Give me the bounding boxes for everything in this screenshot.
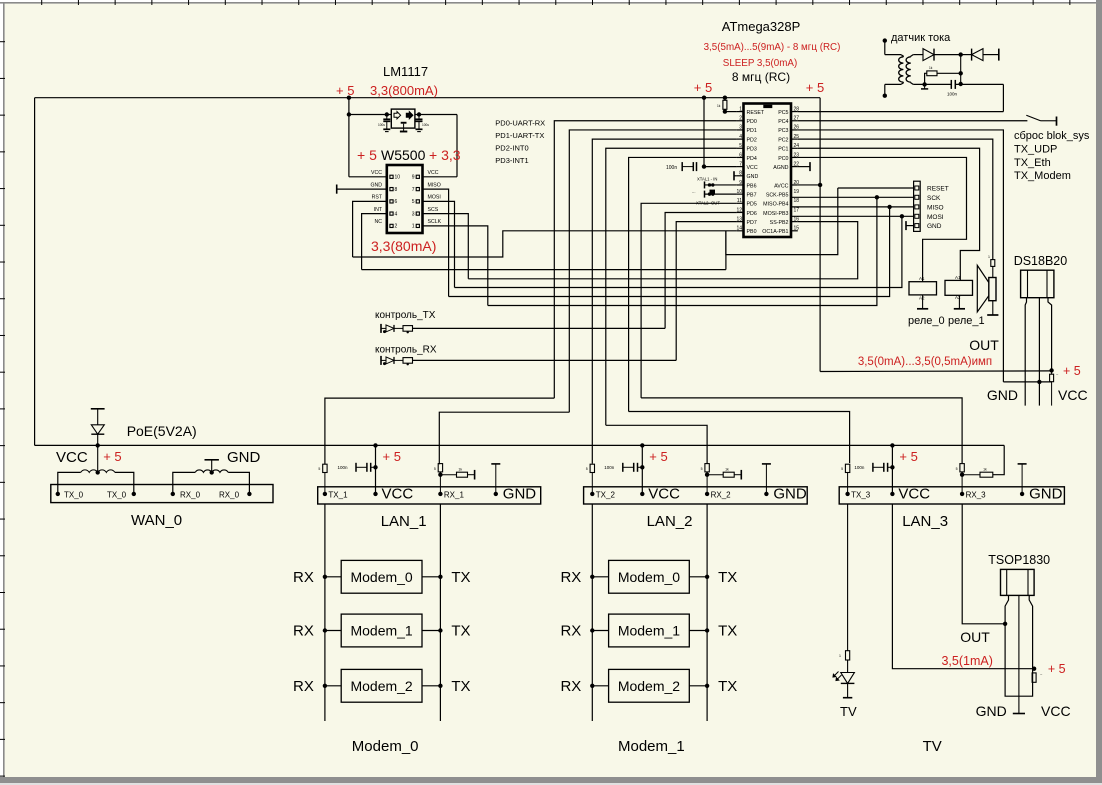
svg-text:TX: TX: [451, 678, 470, 695]
svg-text:Modem_0: Modem_0: [350, 569, 412, 585]
svg-text:VCC: VCC: [1041, 703, 1071, 719]
svg-text:TX_Eth: TX_Eth: [1014, 157, 1051, 169]
svg-text:A1: A1: [919, 276, 925, 281]
svg-text:9: 9: [739, 180, 742, 186]
svg-text:TV: TV: [923, 738, 942, 755]
svg-text:PB7: PB7: [747, 192, 757, 198]
svg-text:100n: 100n: [604, 465, 615, 470]
svg-text:MOSI: MOSI: [927, 214, 944, 221]
svg-text:TX_UDP: TX_UDP: [1014, 144, 1057, 156]
svg-text:19: 19: [794, 189, 800, 195]
svg-text:+ 5: + 5: [103, 449, 121, 464]
svg-text:PD1: PD1: [747, 128, 757, 134]
svg-text:PD4: PD4: [747, 156, 757, 162]
svg-text:6: 6: [395, 199, 398, 205]
svg-text:6: 6: [739, 152, 742, 158]
svg-text:100n: 100n: [666, 165, 677, 171]
svg-text:3,3(800mA): 3,3(800mA): [370, 83, 438, 98]
svg-text:3: 3: [412, 211, 415, 217]
svg-text:GND: GND: [773, 486, 807, 503]
svg-text:17: 17: [794, 207, 800, 213]
svg-text:LM1117: LM1117: [383, 64, 428, 79]
svg-text:MOSI: MOSI: [428, 195, 441, 201]
svg-text:сброс blok_sys: сброс blok_sys: [1014, 130, 1090, 142]
svg-text:1k: 1k: [983, 468, 987, 472]
svg-text:OC1A-PB1: OC1A-PB1: [762, 229, 788, 235]
svg-text:MISO-PB4: MISO-PB4: [763, 202, 788, 208]
svg-text:PD1-UART-TX: PD1-UART-TX: [495, 131, 544, 140]
svg-text:ATmega328P: ATmega328P: [722, 19, 801, 34]
svg-text:A1: A1: [955, 275, 961, 280]
svg-text:...: ...: [692, 189, 696, 194]
svg-text:PB0: PB0: [747, 229, 757, 235]
svg-text:PD7: PD7: [747, 220, 757, 226]
svg-text:5: 5: [318, 467, 320, 471]
svg-text:11: 11: [737, 198, 742, 204]
svg-text:OUT: OUT: [960, 629, 990, 645]
svg-text:TX: TX: [718, 678, 737, 695]
svg-text:XTAL1 - IN: XTAL1 - IN: [697, 177, 717, 182]
svg-text:SCLK: SCLK: [428, 219, 442, 225]
svg-text:SCS: SCS: [428, 207, 439, 213]
svg-text:GND: GND: [1029, 486, 1063, 503]
svg-text:SS-PB2: SS-PB2: [770, 220, 789, 226]
svg-text:GND: GND: [976, 703, 1007, 719]
svg-text:TX: TX: [718, 569, 737, 586]
svg-text:+ 5: + 5: [649, 449, 667, 464]
svg-text:8: 8: [739, 171, 742, 177]
svg-text:PC4: PC4: [778, 119, 788, 125]
svg-text:PD5: PD5: [747, 202, 757, 208]
svg-text:1k: 1k: [929, 66, 933, 70]
svg-text:PD3-INT1: PD3-INT1: [495, 156, 528, 165]
svg-text:VCC: VCC: [428, 170, 439, 176]
svg-text:PD2: PD2: [747, 137, 757, 143]
svg-text:Modem_2: Modem_2: [618, 678, 680, 694]
svg-text:RESET: RESET: [927, 186, 949, 193]
svg-text:100n: 100n: [854, 465, 865, 470]
svg-text:MOSI-PB3: MOSI-PB3: [763, 211, 788, 217]
svg-text:1k: 1k: [725, 468, 729, 472]
svg-text:8: 8: [395, 187, 398, 193]
svg-text:1: 1: [839, 654, 841, 658]
svg-text:TX_1: TX_1: [328, 491, 348, 500]
svg-text:+ 3,3: + 3,3: [429, 147, 461, 163]
svg-text:VCC: VCC: [371, 170, 382, 176]
svg-text:2: 2: [739, 116, 742, 122]
svg-text:2: 2: [395, 224, 398, 230]
svg-text:TSOP1830: TSOP1830: [988, 553, 1050, 567]
svg-text:1: 1: [412, 224, 415, 230]
svg-text:RX_0: RX_0: [180, 491, 201, 500]
svg-text:+ 5: + 5: [1063, 364, 1081, 378]
svg-text:GND: GND: [747, 174, 759, 180]
svg-text:VCC: VCC: [56, 449, 88, 466]
svg-text:A2: A2: [955, 295, 961, 300]
svg-text:GND: GND: [227, 449, 261, 466]
svg-text:13: 13: [736, 216, 742, 222]
svg-text:VCC: VCC: [747, 165, 758, 171]
svg-text:VCC: VCC: [898, 486, 930, 503]
svg-text:TV: TV: [840, 704, 857, 719]
svg-text:реле_1: реле_1: [948, 315, 985, 327]
svg-text:3,5(1mA): 3,5(1mA): [941, 654, 992, 668]
svg-text:VCC: VCC: [382, 486, 414, 503]
svg-text:1k: 1k: [717, 104, 721, 108]
svg-text:RX_2: RX_2: [711, 491, 732, 500]
svg-text:1: 1: [988, 255, 990, 259]
svg-text:Modem_1: Modem_1: [350, 623, 412, 639]
svg-text:SCK: SCK: [927, 195, 941, 202]
svg-text:3,5(0mA)...3,5(0,5mA)имп: 3,5(0mA)...3,5(0,5mA)имп: [858, 356, 992, 368]
svg-text:OUT: OUT: [969, 337, 999, 353]
svg-text:RX_3: RX_3: [966, 491, 987, 500]
svg-text:4: 4: [395, 211, 398, 217]
svg-text:9: 9: [412, 175, 415, 181]
svg-text:100n: 100n: [947, 92, 958, 97]
svg-text:PC2: PC2: [778, 137, 788, 143]
svg-text:10: 10: [736, 189, 742, 195]
svg-text:4: 4: [739, 134, 742, 140]
svg-text:PC3: PC3: [778, 128, 788, 134]
svg-text:1: 1: [739, 106, 742, 112]
svg-text:3,5(5mA)...5(9mA) - 8 мгц (RC): 3,5(5mA)...5(9mA) - 8 мгц (RC): [704, 42, 841, 53]
svg-text:+ 5: + 5: [383, 449, 401, 464]
svg-text:TX_2: TX_2: [596, 491, 616, 500]
svg-text:+ 5: + 5: [357, 147, 377, 163]
svg-text:RX: RX: [293, 569, 314, 586]
svg-text:Modem_2: Modem_2: [350, 678, 412, 694]
svg-text:7: 7: [739, 161, 742, 167]
svg-text:15: 15: [794, 226, 800, 232]
svg-text:A2: A2: [919, 296, 925, 301]
svg-text:NC: NC: [375, 219, 383, 225]
svg-text:+ 5: + 5: [899, 449, 917, 464]
svg-text:PD0: PD0: [747, 119, 757, 125]
svg-text:контроль_RX: контроль_RX: [375, 345, 437, 356]
svg-text:12: 12: [736, 207, 742, 213]
svg-text:+ 5: + 5: [806, 80, 824, 95]
svg-text:Modem_0: Modem_0: [352, 738, 419, 755]
svg-text:MISO: MISO: [428, 182, 441, 188]
svg-text:PD0-UART-RX: PD0-UART-RX: [495, 119, 545, 128]
svg-text:18: 18: [794, 198, 800, 204]
svg-text:TX_Modem: TX_Modem: [1014, 170, 1071, 182]
svg-text:PoE(5V2A): PoE(5V2A): [127, 423, 197, 439]
svg-text:PC5: PC5: [778, 110, 788, 116]
svg-text:RST: RST: [372, 195, 383, 201]
svg-text:SCK-PB5: SCK-PB5: [766, 192, 789, 198]
svg-text:MISO: MISO: [927, 204, 944, 211]
svg-text:GND: GND: [987, 387, 1018, 403]
svg-text:реле_0: реле_0: [908, 315, 945, 327]
svg-text:TX_0: TX_0: [107, 491, 127, 500]
svg-text:LAN_3: LAN_3: [902, 513, 948, 530]
svg-text:10: 10: [395, 175, 401, 181]
svg-text:RX: RX: [293, 678, 314, 695]
svg-text:TX: TX: [451, 623, 470, 640]
svg-text:RX: RX: [560, 623, 581, 640]
svg-text:+ 5: + 5: [336, 83, 354, 98]
svg-text:7: 7: [412, 187, 415, 193]
svg-text:100u: 100u: [422, 123, 429, 127]
svg-text:датчик тока: датчик тока: [891, 32, 951, 44]
svg-text:RX: RX: [293, 623, 314, 640]
svg-text:Modem_1: Modem_1: [618, 623, 680, 639]
svg-text:VCC: VCC: [1058, 387, 1088, 403]
svg-text:Modem_1: Modem_1: [618, 738, 685, 755]
svg-text:RESET: RESET: [747, 110, 765, 116]
svg-text:AGND: AGND: [773, 165, 788, 171]
svg-text:контроль_TX: контроль_TX: [375, 310, 436, 321]
svg-text:3,3(80mA): 3,3(80mA): [371, 238, 436, 254]
svg-text:3: 3: [739, 125, 742, 131]
svg-text:5: 5: [739, 143, 742, 149]
svg-text:VCC: VCC: [648, 486, 680, 503]
svg-text:Modem_0: Modem_0: [618, 569, 680, 585]
svg-text:PB6: PB6: [747, 183, 757, 189]
svg-text:LAN_2: LAN_2: [647, 513, 693, 530]
svg-text:PC0: PC0: [778, 156, 788, 162]
svg-text:W5500: W5500: [381, 147, 426, 163]
svg-text:+ 5: + 5: [1048, 662, 1066, 676]
svg-text:14: 14: [736, 226, 742, 232]
svg-text:GND: GND: [503, 486, 537, 503]
svg-text:TX_0: TX_0: [64, 491, 84, 500]
svg-text:INT: INT: [374, 207, 383, 213]
svg-text:5: 5: [701, 467, 703, 471]
svg-text:5: 5: [841, 467, 843, 471]
svg-text:WAN_0: WAN_0: [131, 512, 182, 529]
svg-text:RX: RX: [560, 678, 581, 695]
svg-text:PD2-INT0: PD2-INT0: [495, 144, 528, 153]
svg-text:TX: TX: [451, 569, 470, 586]
svg-text:AVCC: AVCC: [774, 183, 788, 189]
svg-text:LAN_1: LAN_1: [381, 513, 427, 530]
svg-text:100n: 100n: [338, 465, 349, 470]
svg-text:GND: GND: [927, 223, 942, 230]
svg-text:RX_1: RX_1: [444, 491, 465, 500]
svg-text:GND: GND: [370, 182, 382, 188]
svg-text:PC1: PC1: [778, 147, 788, 153]
svg-text:1k: 1k: [458, 468, 462, 472]
svg-text:RX: RX: [560, 569, 581, 586]
svg-text:5: 5: [586, 467, 588, 471]
svg-text:+ 5: + 5: [694, 80, 712, 95]
svg-text:TX_3: TX_3: [851, 491, 871, 500]
svg-text:8 мгц (RC): 8 мгц (RC): [732, 70, 790, 84]
svg-text:SLEEP 3,5(0mA): SLEEP 3,5(0mA): [723, 58, 797, 69]
svg-text:5: 5: [412, 199, 415, 205]
svg-text:PD3: PD3: [747, 147, 757, 153]
svg-text:PD6: PD6: [747, 211, 757, 217]
svg-text:RX_0: RX_0: [219, 491, 240, 500]
svg-text:100u: 100u: [378, 123, 385, 127]
svg-text:DS18B20: DS18B20: [1014, 254, 1068, 268]
svg-text:TX: TX: [718, 623, 737, 640]
svg-text:5: 5: [434, 467, 436, 471]
svg-text:5: 5: [956, 467, 958, 471]
